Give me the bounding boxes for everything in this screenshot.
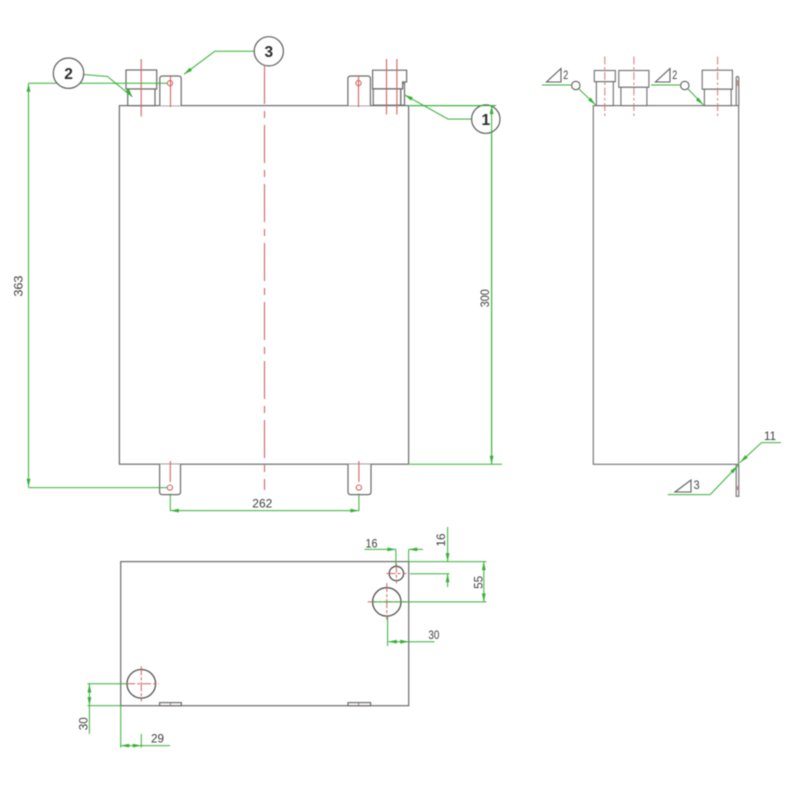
- svg-text:16: 16: [436, 534, 448, 547]
- svg-text:30: 30: [428, 630, 439, 642]
- svg-text:262: 262: [252, 498, 272, 510]
- svg-text:55: 55: [473, 576, 485, 589]
- svg-text:29: 29: [151, 733, 164, 745]
- svg-text:2: 2: [563, 68, 568, 82]
- svg-text:1: 1: [481, 112, 490, 129]
- svg-text:3: 3: [264, 44, 273, 61]
- svg-text:16: 16: [366, 538, 378, 550]
- svg-text:363: 363: [13, 276, 25, 297]
- svg-text:2: 2: [64, 66, 73, 83]
- svg-text:300: 300: [480, 289, 492, 307]
- svg-text:3: 3: [694, 478, 700, 492]
- svg-text:30: 30: [78, 717, 90, 730]
- svg-text:11: 11: [764, 429, 776, 443]
- svg-text:2: 2: [672, 68, 677, 82]
